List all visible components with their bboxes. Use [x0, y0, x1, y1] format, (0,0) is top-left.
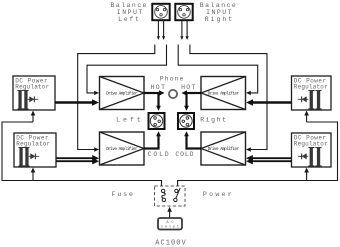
wire J2 pin stubs with down arrows	[180, 21, 188, 41]
power supply PS4 DC power regulator bottom-right	[292, 133, 332, 167]
svg-text:INPUT: INPUT	[206, 9, 231, 16]
wire U3 output HOT right (thick, arrow to phone jack)	[182, 90, 202, 96]
connector AC inlet box	[158, 218, 182, 230]
wire AC inlet to fuse box (up arrow)	[167, 207, 172, 218]
wire PS4 output to U4 (double)	[246, 155, 292, 164]
svg-text:Regulator: Regulator	[16, 140, 50, 147]
svg-text:INPUT: INPUT	[117, 9, 143, 16]
label Balance INPUT Left	[111, 2, 147, 23]
svg-text:Drive Amplifier: Drive Amplifier	[106, 92, 138, 97]
svg-text:Drive Amplifier: Drive Amplifier	[208, 147, 240, 152]
svg-text:HOT: HOT	[151, 84, 166, 91]
svg-text:Regulator: Regulator	[294, 83, 328, 90]
power supply PS3 DC power regulator top-right	[292, 76, 332, 110]
fuse/switch dashed box	[155, 186, 186, 206]
fuse F1 symbol	[161, 189, 165, 201]
wire left outer: to bottom-left amp input	[78, 45, 155, 152]
connector J4 right output (XLR)	[178, 113, 194, 129]
wire J1 pin stubs with down arrows	[157, 21, 165, 41]
svg-text:AC100V: AC100V	[155, 239, 186, 247]
svg-text:Fuse: Fuse	[112, 191, 133, 198]
wire U1 output HOT left (thick, arrow to phone jack)	[144, 90, 165, 96]
svg-text:Phone: Phone	[160, 75, 184, 82]
wire right outer: to bottom-right amp input	[190, 45, 267, 152]
svg-text:Drive Amplifier: Drive Amplifier	[208, 92, 240, 97]
wire branch down to J4 (Right out HOT)	[184, 93, 189, 111]
wire U4 output COLD right (thick, up into J4)	[184, 131, 201, 148]
svg-text:Right: Right	[200, 116, 226, 123]
svg-text:Regulator: Regulator	[294, 140, 328, 147]
connector J3 left output (XLR)	[149, 113, 165, 129]
wire left inner: to top-left amp input	[87, 45, 167, 96]
wire right inner: to top-right amp input	[178, 45, 258, 96]
label Balance INPUT Right	[200, 2, 236, 23]
connector J1 balance input left (XLR)	[152, 4, 169, 20]
wire branch down to J3 (Left out HOT)	[156, 93, 161, 111]
power supply PS2 DC power regulator bottom-left	[14, 133, 56, 167]
connector J2 balance input right (XLR)	[175, 4, 192, 20]
power supply PS1 DC power regulator top-left	[13, 76, 55, 110]
op-amp U3 drive amplifier top-right	[201, 77, 246, 110]
op-amp U2 drive amplifier bottom-left	[100, 132, 145, 165]
op-amp U4 drive amplifier bottom-right	[201, 132, 246, 165]
wire power rail right (power switch to PS3/PS4)	[178, 111, 338, 187]
connector phone jack	[169, 90, 177, 98]
svg-text:Left: Left	[118, 16, 139, 23]
svg-text:HOT: HOT	[181, 84, 195, 91]
svg-text:COLD: COLD	[148, 151, 169, 158]
wire PS1 output to U1 (thick)	[55, 99, 99, 106]
switch S1 symbol	[174, 188, 181, 202]
svg-text:Regulator: Regulator	[15, 83, 49, 90]
op-amp U1 drive amplifier top-left	[100, 77, 145, 110]
wire U2 output COLD left (thick, up into J3)	[144, 131, 161, 148]
svg-text:COLD: COLD	[175, 151, 193, 158]
wire PS3 output to U3 (thick)	[246, 99, 292, 106]
wire power rail left (fuse box to PS1/PS2)	[2, 111, 162, 187]
wire PS2 output to U2 (double)	[56, 155, 99, 164]
svg-text:Drive Amplifier: Drive Amplifier	[106, 147, 138, 152]
